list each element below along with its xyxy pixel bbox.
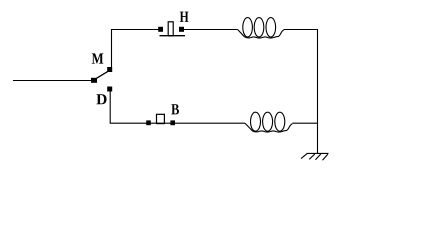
component B left terminal	[146, 120, 151, 125]
ground hatch 2	[309, 154, 315, 159]
switch M pole terminal	[91, 78, 97, 83]
wire H to coil L1	[184, 29, 238, 31]
inductor coil L1 (top)	[238, 18, 284, 38]
wire B to coil L2	[175, 122, 245, 124]
inductor coil L2 (bottom)	[245, 112, 292, 132]
button H right terminal	[179, 27, 184, 32]
label H	[180, 12, 189, 22]
button H cap rectangle	[168, 22, 173, 36]
wire right vertical	[317, 29, 319, 154]
ground hatch 1	[301, 153, 307, 158]
ground hatch 3	[316, 154, 321, 160]
component B open square	[157, 114, 165, 123]
switch M lower contact square D	[107, 87, 112, 92]
ground bar	[307, 152, 329, 154]
ground hatch 4	[323, 154, 328, 160]
switch M blade	[97, 72, 108, 79]
switch M upper contact square	[107, 67, 112, 72]
wire left input	[13, 80, 92, 82]
wire vertical from D contact to bottom branch	[110, 92, 146, 124]
component B wire under square	[150, 122, 171, 124]
component B right terminal	[170, 120, 175, 125]
label B	[171, 104, 179, 114]
wire L1 to right vertical	[284, 29, 318, 31]
wire vertical from upper contact to top branch	[112, 30, 159, 68]
button H base line	[160, 35, 186, 37]
label M	[92, 53, 103, 63]
wire L2 to right vertical node	[292, 122, 317, 124]
label D	[96, 94, 106, 104]
button H left terminal	[158, 27, 163, 32]
